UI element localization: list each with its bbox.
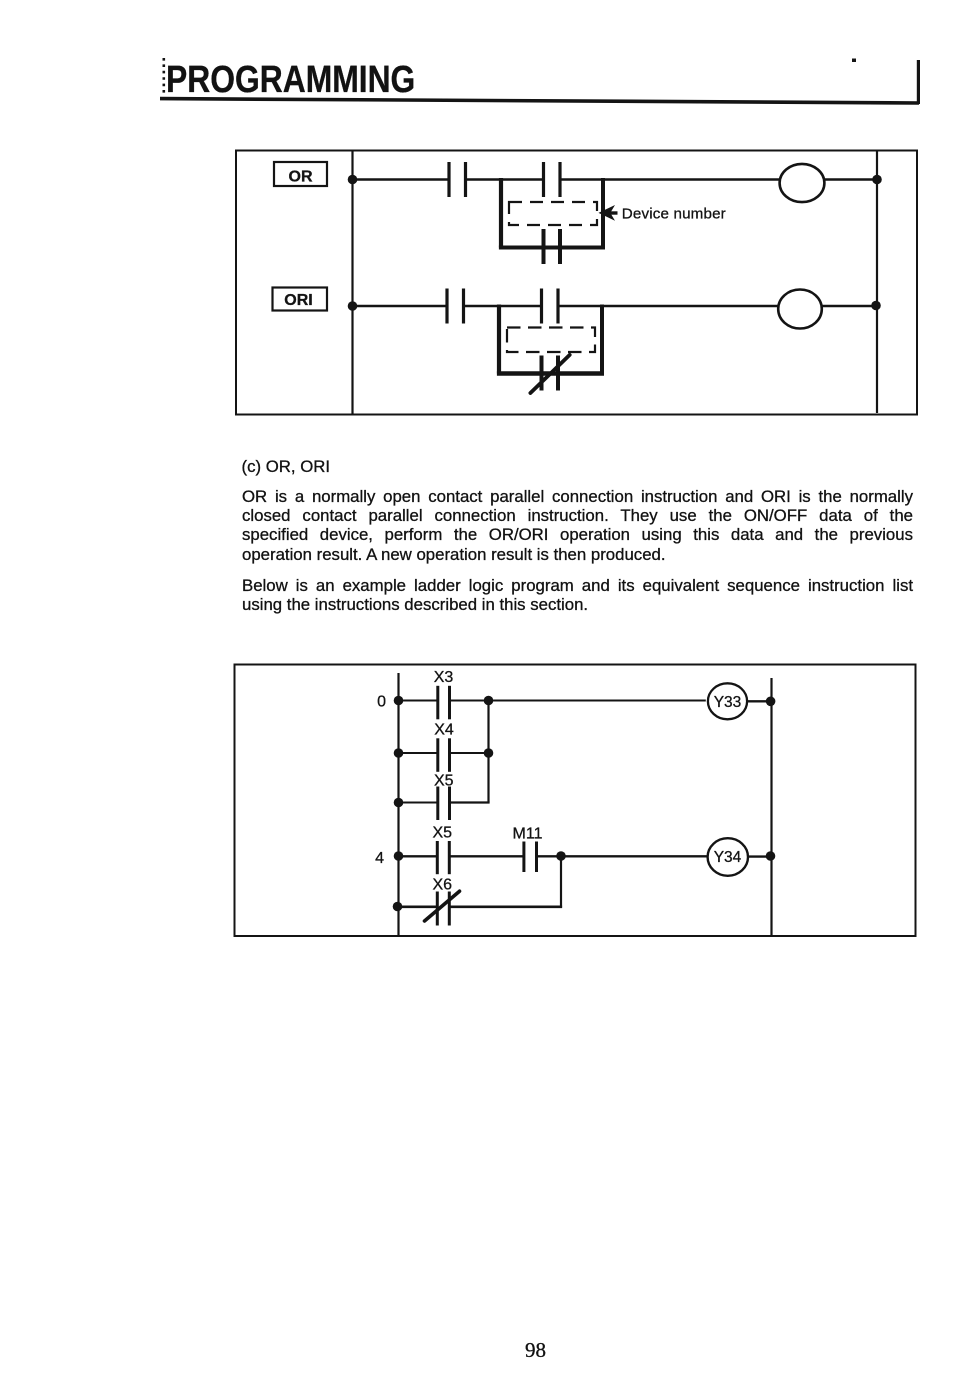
right power rail diagram 1: [876, 151, 878, 413]
OR parallel branch bottom wire: [499, 246, 605, 250]
contact X5 (normally open): [436, 787, 451, 821]
wire ORI row segment 2: [465, 305, 542, 307]
OR parallel branch right vertical wire: [601, 178, 605, 250]
arrow to device-number box: [599, 205, 618, 221]
contact B3 (normally closed, ORI branch): [540, 356, 561, 391]
node: ORI row right junction: [871, 301, 881, 311]
wire OR row segment 2: [467, 178, 544, 180]
node: rung 4 right junction: [766, 851, 776, 861]
svg-text:4: 4: [375, 850, 384, 867]
label M11: [513, 826, 543, 843]
dashed device-number box (ORI branch): [507, 328, 595, 353]
contact X4 (normally open): [436, 738, 451, 772]
slash of normally-closed contact (ORI branch): [530, 355, 569, 393]
label X4: [434, 722, 454, 739]
diagram 1 outer frame: [236, 151, 917, 415]
contact B1 (normally open, ORI row): [445, 289, 465, 324]
svg-text:X3: X3: [434, 669, 454, 686]
left power rail diagram 1: [351, 150, 353, 414]
label X3: [434, 669, 454, 686]
wire rung 4 segment 3: [538, 855, 708, 857]
wire ORI row segment 4: [822, 305, 877, 307]
svg-text:Y34: Y34: [714, 849, 742, 866]
contact A1 (normally open, OR row): [447, 162, 467, 197]
node: OR row left junction: [348, 175, 358, 185]
node: ORI row left junction: [348, 301, 358, 311]
wire X4 row segment 1: [399, 752, 438, 754]
node: rung 0 right junction: [766, 697, 776, 707]
coil Y34: [708, 838, 748, 876]
wire X6 row segment 2: [449, 905, 562, 908]
contact A2 (normally open, OR row): [542, 162, 562, 197]
contact X3 (normally open): [436, 686, 451, 720]
contact M11 (normally open): [522, 842, 538, 873]
wire rung 0 segment 2: [451, 700, 706, 702]
wire ORI row segment 1: [353, 305, 448, 307]
label X6: [433, 877, 453, 894]
node: rung 4 X6 junction: [556, 851, 566, 861]
ORI instruction label box: [273, 288, 328, 311]
right power rail diagram 2: [770, 678, 772, 935]
node: rung 0 branch junction: [484, 696, 494, 706]
diagram 2 outer frame: [235, 665, 916, 937]
header underline rule: [160, 99, 919, 103]
ORI parallel branch left vertical wire: [497, 305, 501, 374]
wire ORI row segment 3: [560, 305, 779, 307]
node: OR row right junction: [872, 175, 882, 185]
step number 0: [377, 694, 386, 711]
wire rung 0 segment 3: [747, 700, 771, 702]
coil ORI row: [778, 290, 822, 329]
svg-text:0: 0: [377, 694, 386, 711]
wire rung 4 segment 1: [399, 855, 438, 857]
OR instruction label box: [274, 162, 327, 186]
wire X6 row segment 1: [398, 905, 438, 908]
svg-text:Y33: Y33: [714, 694, 742, 711]
wire X5 row segment 2: [451, 801, 490, 803]
node: rung 4 left junction: [394, 851, 404, 861]
page number 98: [525, 1338, 546, 1363]
header right vertical rule: [917, 60, 920, 104]
OR parallel branch left vertical wire: [499, 178, 503, 248]
node: rung 0 left junction: [394, 696, 404, 706]
contact B2 (normally open, ORI row): [540, 289, 560, 324]
svg-text:X6: X6: [433, 877, 453, 894]
paragraph 2: [242, 576, 913, 615]
svg-text:X5: X5: [433, 825, 453, 842]
dashed device-number box (OR branch): [509, 202, 597, 225]
label X5 rung 4: [433, 825, 453, 842]
svg-text:Device number: Device number: [622, 206, 726, 223]
wire X5 row segment 1: [399, 802, 438, 804]
left power rail diagram 2: [397, 673, 399, 936]
node: X4 row right junction: [484, 748, 494, 758]
stray speck: [852, 59, 856, 63]
svg-text:M11: M11: [513, 826, 543, 843]
node: X6 row left junction: [393, 902, 403, 912]
slash of normally-closed contact X6: [425, 891, 460, 921]
label X5: [434, 773, 454, 790]
coil OR row: [780, 164, 825, 202]
svg-text:ORI: ORI: [284, 292, 312, 309]
branch vertical wire x3/x4/x5: [487, 701, 489, 803]
wire X4 row segment 2: [451, 752, 489, 754]
node: X5 row left junction: [394, 798, 404, 808]
ORI parallel branch bottom wire: [497, 371, 604, 375]
coil Y33: [708, 683, 747, 719]
ORI parallel branch right vertical wire: [600, 305, 604, 376]
node: X4 row left junction: [394, 748, 404, 758]
header left dotted rule: [163, 58, 166, 96]
label Device number: [622, 206, 726, 223]
svg-text:OR: OR: [289, 169, 313, 186]
wire rung 4 segment 4: [747, 855, 771, 857]
header title PROGRAMMING: [166, 58, 505, 100]
contact X5 rung 4 (normally open): [436, 841, 451, 874]
wire OR row segment 4: [824, 178, 877, 180]
step number 4: [375, 850, 384, 867]
contact A3 (normally open, OR branch): [542, 229, 563, 264]
contact X6 (normally closed): [436, 892, 451, 926]
svg-text:X4: X4: [434, 722, 454, 739]
wire OR row segment 3: [562, 178, 781, 180]
X6 branch vertical wire: [560, 856, 562, 908]
wire rung 4 segment 2: [449, 855, 524, 857]
wire OR row segment 1: [353, 178, 450, 180]
caption (c) OR, ORI: [242, 457, 331, 477]
paragraph 1: [242, 487, 913, 565]
wire rung 0 segment 1: [399, 700, 438, 702]
